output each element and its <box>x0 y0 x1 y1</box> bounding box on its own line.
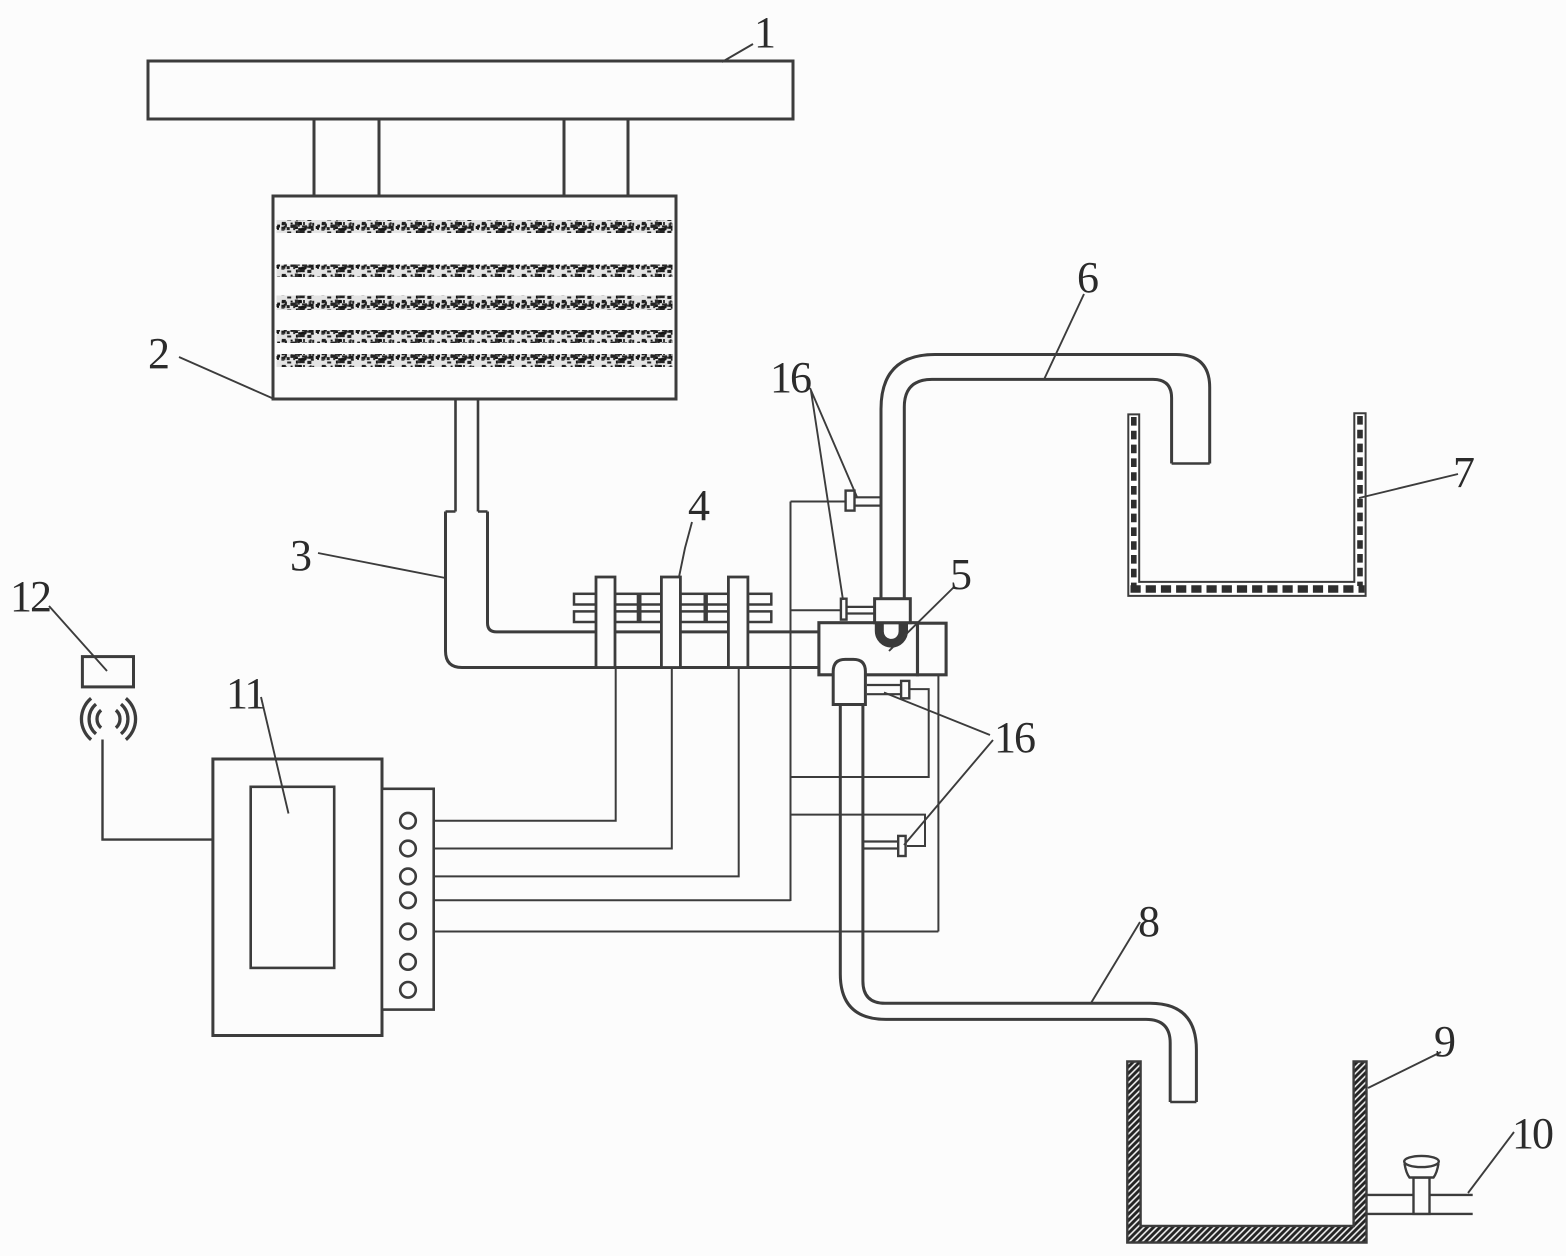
controller box 11 <box>213 759 382 1036</box>
svg-text:16: 16 <box>994 713 1035 762</box>
wifi arc right outer <box>126 698 136 739</box>
faucet pipe 10 <box>1367 1195 1473 1214</box>
U bend of pump 5 <box>875 622 908 648</box>
faucet stem <box>1414 1178 1430 1214</box>
svg-text:5: 5 <box>950 550 971 599</box>
valve stem V3 <box>728 577 748 668</box>
valve stem V2 <box>661 577 680 668</box>
flange rail segment left <box>574 594 596 605</box>
support post left <box>314 119 379 196</box>
wifi arc right inner <box>116 710 120 728</box>
terminal circle 6 <box>400 954 416 970</box>
faucet knob <box>1405 1164 1439 1178</box>
speckle band e <box>277 354 673 367</box>
container 9 shell <box>1127 1062 1366 1243</box>
pump bottom connector <box>833 659 865 704</box>
svg-text:12: 12 <box>10 572 50 621</box>
wire trunk <box>790 502 792 902</box>
svg-text:2: 2 <box>148 329 168 378</box>
label 2 <box>179 357 273 399</box>
flange joint mid1 <box>637 594 642 622</box>
fitting 16 third nipple <box>867 685 901 694</box>
fitting 16 second bolt <box>841 599 847 620</box>
speckle band a <box>277 220 673 233</box>
wire wireless to controller <box>103 740 213 840</box>
label 16 top <box>810 388 857 600</box>
container 7 shell <box>1128 413 1365 596</box>
terminal circle 3 <box>400 869 416 885</box>
svg-text:1: 1 <box>754 8 774 57</box>
wire valve3 to terminal <box>416 668 739 877</box>
elbow pipe 3 <box>446 512 819 668</box>
fitting 16 third bolt <box>901 681 909 698</box>
pump side attachment <box>918 623 947 675</box>
trunk branch to fitting 2 <box>791 609 841 611</box>
label 12 <box>49 606 107 671</box>
flange rail segment mid2 <box>680 594 728 605</box>
fitting 16 fourth nipple <box>863 842 898 849</box>
platen 1 <box>148 61 793 119</box>
discharge pipe 6 outer <box>881 355 1210 599</box>
svg-text:9: 9 <box>1434 1017 1455 1066</box>
terminal circle 7 <box>400 982 416 998</box>
container 7 floor dashes <box>1131 585 1365 592</box>
terminal circle 2 <box>400 841 416 857</box>
svg-text:8: 8 <box>1138 897 1159 946</box>
label 1 <box>722 44 753 62</box>
pump body 5 <box>819 623 918 675</box>
mold block 2 <box>273 196 676 399</box>
label 7 <box>1359 474 1458 498</box>
svg-text:16: 16 <box>770 353 811 402</box>
trunk branch to fitting 4 <box>791 815 926 846</box>
svg-text:4: 4 <box>688 481 710 530</box>
container 7 right wall dashes <box>1357 416 1363 586</box>
drain pipe 8 outer <box>840 705 1170 1103</box>
controller display <box>251 787 335 968</box>
discharge pipe 6 inner <box>904 379 1171 598</box>
svg-text:6: 6 <box>1077 253 1098 302</box>
svg-text:10: 10 <box>1512 1109 1553 1158</box>
wire valve2 to terminal <box>416 668 672 849</box>
wireless module 12 <box>82 657 133 687</box>
support post right <box>564 119 628 196</box>
speckle band c <box>277 296 673 311</box>
label 16 bottom <box>884 693 993 846</box>
speckle band b <box>277 265 673 278</box>
svg-text:7: 7 <box>1453 448 1474 497</box>
flange rail segment right <box>748 594 771 605</box>
wifi arc left mid <box>89 704 96 734</box>
label 5 <box>889 587 954 651</box>
pipe 6 sleeve coupling <box>875 599 911 623</box>
wifi arc left outer <box>81 698 91 739</box>
drain pipe 8 inner <box>863 705 1197 1103</box>
label 3 <box>318 553 446 578</box>
svg-text:11: 11 <box>226 669 264 718</box>
terminal strip <box>382 789 434 1010</box>
svg-text:3: 3 <box>290 531 311 580</box>
wifi arc left inner <box>97 710 101 728</box>
label 10 <box>1468 1132 1514 1193</box>
fitting 16 fourth bolt <box>898 836 905 856</box>
terminal circle 5 <box>400 924 416 940</box>
pipe 8 outlet cap <box>1170 1101 1196 1104</box>
flange rail segment mid1 <box>615 594 661 605</box>
wire 5 riser <box>937 675 939 932</box>
label 11 <box>261 697 289 814</box>
fitting 16 second nipple <box>847 607 875 614</box>
label 4 <box>679 522 692 577</box>
label 9 <box>1368 1052 1441 1088</box>
trunk branch to fitting 3 <box>791 689 929 777</box>
trunk branch to fitting 1 <box>791 501 846 503</box>
wire pump to terminal 5 <box>416 931 939 933</box>
fitting 16 top nipple <box>855 497 882 505</box>
wifi arc right mid <box>121 704 128 734</box>
pipe 6 outlet cap <box>1172 462 1210 465</box>
speckle band d <box>277 330 673 343</box>
container 7 left wall dashes <box>1131 417 1137 586</box>
flange joint mid2 <box>704 594 708 622</box>
label 8 <box>1091 922 1140 1003</box>
label 6 <box>1044 294 1084 380</box>
wire valve1 to terminal <box>416 668 616 821</box>
wire trunk to terminal 4 <box>416 899 791 901</box>
terminal circle 4 <box>400 893 416 909</box>
fitting 16 top bolt <box>846 491 855 511</box>
valve stem V1 <box>596 577 615 668</box>
terminal circle 1 <box>400 813 416 829</box>
pipe block to elbow <box>456 399 479 512</box>
